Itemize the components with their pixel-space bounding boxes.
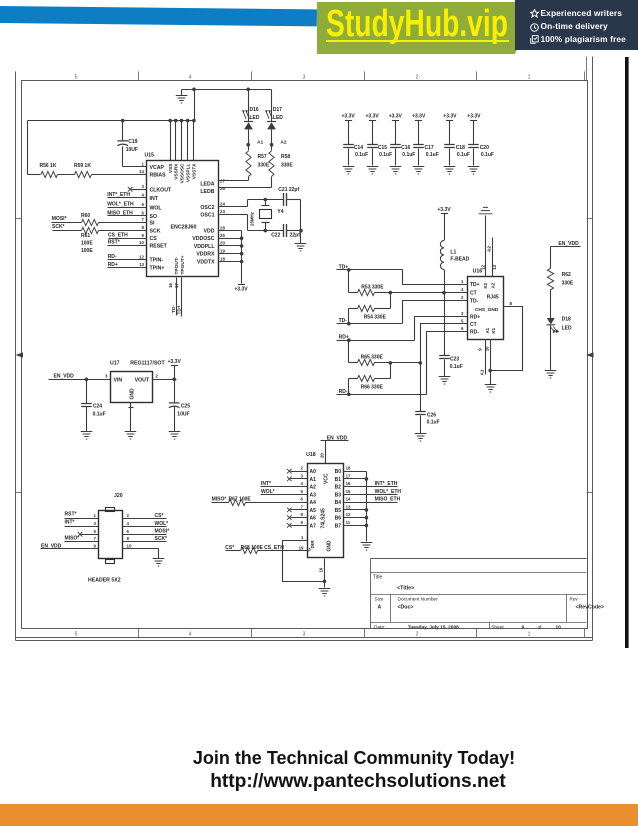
svg-text:4: 4: [189, 631, 192, 637]
wire CS: [109, 238, 147, 240]
svg-text:INT: INT: [150, 196, 159, 202]
ground J20: [153, 559, 165, 567]
svg-text:C20: C20: [480, 145, 489, 151]
svg-text:B2: B2: [335, 485, 342, 491]
svg-text:INT*: INT*: [65, 519, 75, 525]
svg-text:U17: U17: [110, 360, 120, 366]
svg-text:5: 5: [142, 202, 145, 207]
capacitor C14 0.1uF: [343, 145, 368, 159]
ic U15 ENC28J60 body: [147, 161, 219, 277]
wire U18 GND pin10: [323, 559, 327, 588]
net label RD-: [339, 389, 348, 395]
svg-text:RBIAS: RBIAS: [150, 172, 167, 178]
wire crystal right to ground: [299, 200, 303, 244]
svg-text:1: 1: [94, 513, 97, 518]
frame center arrow left: [16, 352, 24, 357]
svg-text:10: 10: [127, 544, 132, 549]
wire U18 B5: [344, 508, 369, 512]
capacitor C25 10UF: [169, 403, 190, 418]
wire SO: [108, 215, 147, 217]
net label MISO_ETH U18: [375, 497, 401, 503]
frame zone numbers: [75, 75, 531, 638]
svg-text:14: 14: [346, 497, 351, 502]
svg-text:74LS245: 74LS245: [321, 508, 327, 529]
wire VSS bus: [28, 120, 195, 122]
junction VSS pin VSSOSC: [180, 119, 184, 123]
net label TD+: [339, 264, 349, 270]
net label RD- (TPIN-): [108, 254, 117, 260]
capacitor C22 22pf: [271, 224, 300, 239]
svg-text:<Title>: <Title>: [397, 585, 414, 591]
wire R58 to LEDB: [219, 177, 272, 188]
label HEADER 5X2: [88, 578, 121, 584]
svg-text:VIN: VIN: [114, 378, 123, 384]
svg-text:MOSI*: MOSI*: [52, 216, 67, 222]
svg-text:10: 10: [556, 624, 562, 630]
svg-text:6: 6: [301, 497, 304, 502]
svg-text:330E: 330E: [562, 280, 574, 286]
label R60/R61 values: [81, 241, 93, 254]
svg-text:19: 19: [220, 249, 225, 254]
svg-text:10: 10: [319, 567, 324, 572]
no-connect U18 A5: [287, 508, 292, 513]
svg-text:<Doc>: <Doc>: [398, 605, 414, 611]
wire U18 A3: [261, 494, 308, 496]
sheet scan edge bottom: [16, 640, 593, 642]
svg-text:R60: R60: [81, 213, 90, 219]
svg-text:C18: C18: [456, 145, 465, 151]
svg-text:DIR: DIR: [310, 540, 316, 549]
svg-text:C16: C16: [401, 145, 410, 151]
svg-text:13: 13: [346, 505, 351, 510]
ground C26: [415, 434, 427, 442]
net label RD+: [339, 335, 349, 341]
U16 left pin names: [470, 282, 480, 335]
svg-text:C14: C14: [354, 145, 363, 151]
svg-text:+3.3V: +3.3V: [234, 287, 248, 293]
U18 B pin names: [335, 469, 342, 529]
svg-text:9: 9: [522, 624, 525, 630]
wire U15 VSS pin VSSPLL: [187, 121, 189, 161]
svg-text:MISO*: MISO*: [65, 536, 80, 542]
ground C18: [444, 167, 456, 175]
wire SI/MOSI: [52, 222, 147, 224]
capacitor C20 0.1uF: [468, 145, 494, 159]
wire D17 cathode to R58: [270, 130, 274, 151]
wire RD+ to R65: [348, 341, 350, 363]
wire VSS bus left drop: [27, 121, 29, 175]
svg-text:4: 4: [127, 521, 130, 526]
svg-text:+3.3V: +3.3V: [365, 114, 379, 120]
svg-text:RD-: RD-: [108, 254, 117, 260]
svg-text:A2: A2: [310, 485, 317, 491]
svg-text:CHS_GND: CHS_GND: [475, 307, 499, 313]
svg-text:3: 3: [301, 474, 304, 479]
svg-text:SCK*: SCK*: [52, 224, 65, 230]
net label WOL*_ETH U18: [375, 489, 402, 495]
U15 left pin numbers: [139, 162, 144, 268]
svg-text:A6: A6: [310, 516, 317, 522]
U18 pin19 number: [299, 545, 304, 550]
svg-text:7: 7: [142, 217, 145, 222]
wire C25 stem: [174, 380, 176, 403]
svg-text:A2: A2: [280, 139, 286, 145]
net label RST* J20: [65, 512, 77, 518]
wire RBIAS: [28, 174, 147, 176]
resistor R66 330E: [358, 375, 384, 390]
wire crystal bottom rail: [248, 229, 301, 233]
svg-text:C26: C26: [427, 412, 436, 418]
svg-text:VDD: VDD: [204, 229, 215, 235]
StudyHub.vip logo text: [326, 5, 508, 43]
svg-text:HEADER 5X2: HEADER 5X2: [88, 578, 121, 584]
power +3.3V for L1: [437, 207, 451, 214]
wire WOL: [108, 207, 147, 209]
svg-text:RD-: RD-: [470, 330, 479, 336]
wire U18 B1: [344, 477, 369, 481]
svg-text:L1: L1: [450, 249, 456, 255]
svg-text:1: 1: [461, 279, 464, 284]
svg-text:VDDOSC: VDDOSC: [192, 236, 214, 242]
svg-text:R61: R61: [81, 233, 90, 239]
capacitor C16 0.1uF: [390, 145, 415, 159]
wire C17 stem: [418, 121, 420, 166]
svg-text:+3.3V: +3.3V: [389, 114, 403, 120]
svg-text:RD+: RD+: [108, 262, 118, 268]
net label CS_ETH: [108, 232, 128, 238]
svg-text:INT*_ETH: INT*_ETH: [375, 481, 398, 487]
wire U18 A5 stub: [291, 509, 308, 511]
wire crystal top rail: [248, 198, 301, 202]
U15 top pin names: [168, 163, 198, 184]
wire C23 to ground: [444, 360, 446, 377]
label U18: [306, 452, 316, 458]
resistor R59 1K: [74, 163, 91, 178]
svg-text:R56 1K: R56 1K: [40, 163, 57, 169]
svg-text:CS*: CS*: [225, 545, 234, 551]
wire D18 to ground: [550, 325, 552, 371]
svg-text:U15: U15: [145, 153, 155, 159]
led D18: [547, 316, 572, 332]
svg-text:+3.3V: +3.3V: [437, 207, 451, 213]
svg-text:11: 11: [346, 520, 351, 525]
svg-text:10: 10: [139, 240, 144, 245]
svg-text:7: 7: [94, 536, 97, 541]
wire U18 A2: [261, 486, 308, 488]
no-connect U18 A7: [287, 523, 292, 528]
svg-text:LED: LED: [562, 326, 572, 332]
svg-text:8: 8: [127, 536, 130, 541]
net label MISO* J20: [65, 536, 80, 542]
wire U18 A1 stub: [291, 478, 308, 480]
U18 left pin numbers: [301, 466, 304, 525]
svg-text:<RevCode>: <RevCode>: [576, 605, 605, 611]
svg-text:28: 28: [220, 225, 225, 230]
wire L1 top stem: [444, 214, 446, 241]
svg-text:0.1uF: 0.1uF: [450, 364, 463, 370]
svg-text:19: 19: [299, 545, 304, 550]
svg-text:0.1uF: 0.1uF: [402, 152, 415, 158]
svg-text:VDDRX: VDDRX: [196, 252, 215, 258]
wire CLKOUT stub: [132, 189, 147, 191]
svg-text:+3.3V: +3.3V: [443, 114, 457, 120]
wire L1 to CT: [442, 270, 446, 295]
svg-text:5: 5: [461, 319, 464, 324]
svg-text:17: 17: [346, 474, 351, 479]
sheet outer border right: [592, 57, 594, 641]
wire U18 DIR pin1: [283, 541, 325, 582]
led D16: [242, 107, 260, 129]
svg-text:4: 4: [189, 75, 192, 81]
svg-text:K1: K1: [491, 327, 496, 333]
svg-text:13: 13: [139, 262, 144, 267]
wire U18 B3: [344, 494, 398, 496]
wire U15 VSS pin VSSOSC: [181, 121, 183, 161]
svg-text:B1: B1: [335, 477, 342, 483]
net label CS* J20: [155, 513, 164, 519]
svg-text:CT: CT: [470, 322, 477, 328]
ground U16: [485, 385, 497, 393]
wire TD-: [337, 301, 468, 326]
no-connect CLKOUT: [128, 187, 133, 192]
frame center arrow right: [586, 352, 594, 357]
wire RD-: [337, 332, 468, 397]
svg-text:18: 18: [220, 256, 225, 261]
resistor R56 1K: [40, 163, 58, 178]
net label MOSI*: [52, 216, 67, 222]
power +3.3V below U15: [234, 285, 248, 293]
ic U18 74LS245 body: [308, 464, 344, 558]
U17 pin2 number: [155, 373, 158, 378]
svg-text:R66 330E: R66 330E: [361, 385, 384, 391]
svg-text:OSC2: OSC2: [200, 205, 214, 211]
wire EN_VDD right: [551, 247, 581, 269]
wire ground rail top: [182, 89, 272, 91]
sheet outer border left: [15, 72, 17, 641]
svg-text:5: 5: [75, 75, 78, 81]
svg-text:5: 5: [75, 631, 78, 637]
svg-text:WOL*_ETH: WOL*_ETH: [375, 489, 402, 495]
svg-text:1: 1: [142, 162, 145, 167]
svg-text:23: 23: [220, 209, 225, 214]
svg-text:J20: J20: [114, 493, 123, 499]
net label MISO_ETH: [107, 210, 133, 216]
svg-text:+3.3V: +3.3V: [341, 114, 355, 120]
wire RESET: [108, 245, 147, 247]
svg-text:A1: A1: [310, 477, 317, 483]
net label EN_VDD J20: [41, 544, 62, 550]
U17 pin names: [114, 378, 150, 400]
svg-text:12: 12: [346, 512, 351, 517]
page edge scan line: [625, 57, 629, 648]
svg-text:A3: A3: [310, 492, 317, 498]
svg-text:R62: R62: [562, 272, 571, 278]
net label WOL*_ETH: [107, 202, 134, 208]
net label INT* U18: [261, 481, 271, 487]
wire U18 B6: [344, 516, 369, 520]
wire J20 pin10 to ground: [123, 549, 159, 559]
svg-text:Title: Title: [373, 575, 382, 581]
wire J20 pin9: [41, 548, 99, 550]
ic U17 REG1117 body: [111, 372, 153, 403]
svg-text:RST*: RST*: [65, 512, 77, 518]
svg-text:LED: LED: [250, 115, 260, 121]
svg-text:WOL: WOL: [150, 205, 163, 211]
ground C15: [367, 167, 379, 175]
svg-text:TD-: TD-: [470, 299, 479, 305]
svg-text:A7: A7: [310, 523, 317, 529]
no-connect U18 A0: [287, 469, 292, 474]
svg-text:RD+: RD+: [470, 314, 480, 320]
net label CS* U18: [225, 545, 234, 551]
U16 top pin numbers: [480, 264, 497, 269]
wire TPIN+: [108, 267, 147, 269]
resistor R68 100E: [241, 547, 258, 553]
label R67 100E: [229, 497, 252, 503]
chassis ground above U16: [479, 207, 493, 213]
svg-text:VSSOSC: VSSOSC: [179, 163, 185, 184]
net label A1 node: [257, 139, 263, 145]
net label A2 node: [280, 139, 286, 145]
J20 right pin numbers: [127, 513, 132, 548]
net label EN_VDD right: [558, 241, 579, 247]
wire U18 B2: [344, 486, 398, 488]
svg-text:+3.3V: +3.3V: [412, 114, 426, 120]
svg-text:VSSRX: VSSRX: [174, 163, 180, 180]
wire CT2 to C26: [420, 363, 422, 412]
connector J20 body: [99, 508, 123, 564]
net label MISO* U18: [212, 497, 227, 503]
wire TPIN-: [108, 259, 147, 261]
wire C19/VCAP: [121, 119, 147, 167]
svg-text:7: 7: [301, 505, 304, 510]
svg-text:B5: B5: [335, 508, 342, 514]
svg-text:Tuesday, July 15, 2008: Tuesday, July 15, 2008: [408, 624, 459, 630]
svg-text:0.1uF: 0.1uF: [355, 152, 368, 158]
svg-text:C22: C22: [271, 233, 280, 239]
svg-text:U18: U18: [306, 452, 316, 458]
svg-text:VSSTX: VSSTX: [192, 163, 198, 180]
svg-text:22pf: 22pf: [290, 233, 301, 239]
capacitor C15 0.1uF: [367, 145, 392, 159]
svg-text:A0: A0: [310, 469, 317, 475]
svg-text:K2: K2: [483, 282, 488, 288]
header navy panel: [515, 0, 638, 50]
wire U16 pin10 to ground: [488, 340, 492, 385]
wire J20 pin1: [65, 518, 99, 520]
svg-text:12: 12: [480, 264, 485, 269]
net label WOL* U18: [261, 489, 275, 495]
svg-text:SI: SI: [150, 220, 155, 226]
svg-text:LED: LED: [273, 115, 283, 121]
svg-text:MISO_ETH: MISO_ETH: [107, 210, 133, 216]
svg-text:8: 8: [510, 301, 513, 306]
U16 left pin numbers: [461, 279, 464, 331]
resistor R65 330E: [358, 355, 384, 366]
svg-text:6: 6: [461, 326, 464, 331]
svg-text:25MHz: 25MHz: [250, 211, 255, 226]
svg-text:B4: B4: [335, 500, 342, 506]
svg-text:F-BEAD: F-BEAD: [450, 256, 469, 262]
svg-text:24: 24: [220, 202, 225, 207]
net label MOSI* J20: [155, 529, 170, 535]
svg-text:+3.3V: +3.3V: [467, 114, 481, 120]
svg-text:16: 16: [346, 481, 351, 486]
capacitor C24 0.1uF: [81, 404, 105, 418]
svg-text:A1: A1: [485, 327, 490, 333]
svg-text:WOL*: WOL*: [155, 521, 169, 527]
net label TD-: [339, 318, 348, 324]
label 74LS245: [321, 508, 327, 529]
header bullet: plagiarism free: [530, 35, 539, 44]
ground U18 B-side: [361, 543, 373, 551]
svg-text:12: 12: [139, 254, 144, 259]
svg-text:C19: C19: [128, 139, 137, 145]
capacitor C23 0.1uF: [439, 356, 463, 371]
resistor R54 330E: [358, 305, 387, 320]
svg-text:A: A: [378, 604, 382, 610]
svg-text:R54 330E: R54 330E: [364, 314, 387, 320]
svg-text:0.1uF: 0.1uF: [379, 152, 392, 158]
svg-text:Rev: Rev: [570, 597, 579, 602]
svg-text:2: 2: [301, 466, 304, 471]
svg-text:WOL*: WOL*: [261, 489, 275, 495]
junction VSS pin VSS: [168, 119, 172, 123]
resistor R62 330E: [547, 268, 574, 290]
wire OSC2: [219, 200, 248, 207]
svg-text:25: 25: [220, 233, 225, 238]
label ENC28J60: [171, 225, 197, 231]
svg-text:B6: B6: [335, 516, 342, 522]
U18 pin10 number: [319, 567, 324, 572]
svg-text:6: 6: [127, 529, 130, 534]
svg-text:1: 1: [301, 535, 304, 540]
svg-text:WOL*_ETH: WOL*_ETH: [107, 202, 134, 208]
svg-text:R53 330E: R53 330E: [361, 284, 384, 290]
title block Size/Doc/Rev row: [375, 597, 605, 611]
U18 VCC GND DIR names: [307, 473, 333, 551]
wire J20 pin6: [123, 534, 167, 536]
wire J20 pin8: [123, 541, 167, 543]
wire U18 A0 stub: [291, 471, 308, 473]
svg-text:LEDB: LEDB: [200, 189, 214, 195]
footer orange bar: [0, 804, 638, 826]
wire R62 to D18: [550, 290, 552, 319]
svg-text:LEDA: LEDA: [200, 182, 214, 188]
wire C14 stem: [348, 121, 350, 166]
wire TD+: [337, 268, 468, 284]
U18 pin20 number: [319, 453, 324, 458]
svg-text:SCK: SCK: [150, 228, 161, 234]
svg-text:16: 16: [168, 283, 173, 288]
crystal Y4: [250, 200, 284, 231]
footer url text: [0, 772, 638, 791]
net label A1 stub: [479, 369, 484, 375]
svg-text:A1: A1: [479, 369, 484, 375]
wire U18 A7 stub: [291, 525, 308, 527]
net label RD+ (TPIN+): [108, 262, 118, 268]
svg-text:MOSI*: MOSI*: [155, 529, 170, 535]
svg-text:100E: 100E: [81, 248, 93, 254]
net label SCK*: [52, 224, 65, 230]
svg-text:REG1117/SOT: REG1117/SOT: [130, 360, 165, 366]
svg-text:D18: D18: [562, 316, 571, 322]
svg-text:3: 3: [461, 311, 464, 316]
U15 left pin names: [150, 165, 172, 272]
svg-text:+3.3V: +3.3V: [168, 359, 182, 365]
ground U18 GND: [319, 589, 331, 597]
resistor R61 100E: [81, 227, 98, 239]
